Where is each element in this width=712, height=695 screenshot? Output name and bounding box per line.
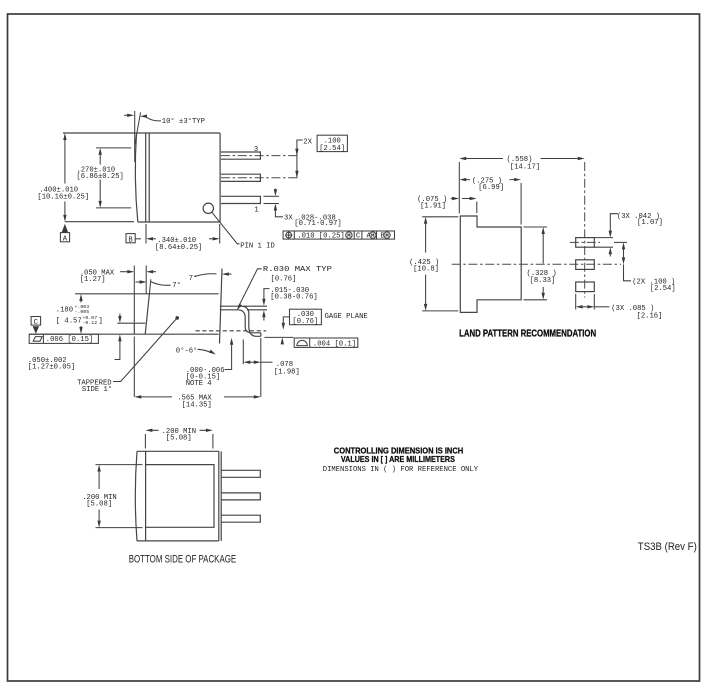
top view tab mold lines — [146, 133, 150, 222]
lead 1 (bottom view) — [221, 470, 260, 477]
svg-text:A: A — [63, 235, 68, 243]
svg-text:[1.27±0.05]: [1.27±0.05] — [28, 364, 75, 372]
svg-text:[1.07]: [1.07] — [637, 219, 663, 227]
svg-text:PIN 1 ID: PIN 1 ID — [240, 242, 275, 250]
svg-text:[10.8]: [10.8] — [413, 266, 439, 274]
top view body outline — [63, 133, 220, 222]
10 degree draft angle callout — [124, 111, 205, 162]
svg-text:NOTE 4: NOTE 4 — [186, 380, 212, 388]
svg-text:[10.16±0.25]: [10.16±0.25] — [37, 193, 89, 201]
svg-text:R.030 MAX TYP: R.030 MAX TYP — [263, 266, 332, 274]
svg-text:]: ] — [99, 318, 103, 326]
svg-text:[2.54]: [2.54] — [650, 285, 676, 293]
svg-text:-0.12: -0.12 — [83, 320, 98, 326]
R.030 MAX TYP lead radius callout — [237, 266, 332, 310]
seating plane reference line right with profile tolerance — [264, 337, 293, 344]
svg-text:.006 [0.15]: .006 [0.15] — [46, 336, 93, 344]
lead 3 centerline — [221, 155, 299, 157]
lead 3 (top view) — [221, 152, 260, 159]
svg-text:TS3B (Rev F): TS3B (Rev F) — [638, 541, 697, 553]
svg-text:[6.99]: [6.99] — [478, 184, 504, 192]
dimension .340 +/- .010 — [135, 224, 220, 252]
dimension .078 foot length — [243, 338, 299, 397]
svg-text:[2.54]: [2.54] — [319, 145, 345, 153]
dimension 2X .100 lead pitch — [295, 135, 347, 178]
svg-text:[1.98]: [1.98] — [274, 369, 300, 377]
feature control frame: true position .010 — [283, 231, 394, 241]
lead pad 2 — [576, 260, 595, 270]
svg-text:10° ±3°TYP: 10° ±3°TYP — [162, 117, 205, 126]
side view left edge extension lines above — [134, 266, 151, 323]
datum A symbol — [60, 224, 69, 244]
dimension .400 +/- .010 (top view height) — [37, 133, 134, 222]
side view left draft edge — [145, 294, 149, 334]
lead 2 centerline — [221, 177, 299, 179]
dimension .565 MAX overall length — [134, 337, 260, 410]
lead pad 3 — [576, 282, 595, 292]
lead 1 (top view) — [221, 196, 260, 203]
lead 2 (bottom view) — [221, 493, 260, 500]
dimension .015-.030 lead thickness — [243, 287, 318, 321]
dimension .200 MIN pad width — [145, 428, 213, 449]
svg-text:SIDE 1°: SIDE 1° — [82, 385, 112, 394]
dimension .050 +/- .002 tab thickness — [28, 314, 122, 372]
svg-text:2X: 2X — [303, 139, 312, 147]
lead pad 1 — [576, 238, 595, 248]
svg-text:.180: .180 — [56, 306, 73, 314]
7 degree draft callout right — [189, 272, 232, 283]
tab land pad outline — [460, 216, 521, 312]
.030 gage plane callout — [282, 309, 368, 330]
dimension (3X .085) pad width — [576, 294, 663, 321]
svg-text:0°-6°: 0°-6° — [176, 346, 198, 355]
svg-text:[14.35]: [14.35] — [182, 402, 212, 410]
svg-text:[ 4.57: [ 4.57 — [56, 318, 82, 326]
svg-text:7°: 7° — [172, 281, 181, 290]
svg-text:[0.76]: [0.76] — [271, 275, 297, 283]
formed lead (side view) — [220, 306, 261, 336]
svg-text:.004 [0.1]: .004 [0.1] — [313, 340, 356, 348]
datum B symbol — [126, 234, 135, 245]
gage plane dashed line — [196, 330, 267, 332]
lead 2 (top view) — [221, 174, 260, 181]
svg-text:[1.27]: [1.27] — [80, 276, 106, 284]
svg-text:C: C — [356, 233, 361, 241]
lead pad 1 centerline — [570, 241, 600, 243]
svg-text:B: B — [128, 236, 133, 244]
tappered side leader note — [77, 316, 179, 394]
svg-text:[1.91]: [1.91] — [420, 203, 446, 211]
dimension (.558) overall — [459, 156, 584, 213]
svg-text:[14.17]: [14.17] — [510, 163, 540, 171]
side view body top edge with left extension — [75, 293, 219, 295]
bottom view tab mold line — [145, 451, 147, 541]
svg-text:[8.33]: [8.33] — [530, 277, 556, 285]
feature control frame: profile .004 — [294, 338, 358, 348]
svg-text:.010 [0.25]: .010 [0.25] — [297, 233, 344, 241]
side view right draft edge extension — [220, 269, 223, 344]
0-6 degree foot angle callout — [176, 346, 216, 355]
svg-text:[5.08]: [5.08] — [86, 501, 112, 509]
lead 3 (bottom view) — [221, 515, 260, 522]
svg-text:[0.38-0.76]: [0.38-0.76] — [270, 293, 317, 301]
7 degree draft callout left — [136, 280, 181, 290]
svg-text:DIMENSIONS IN ( ) FOR REFERENC: DIMENSIONS IN ( ) FOR REFERENCE ONLY — [323, 466, 479, 474]
pin 1 ID circle — [203, 203, 213, 213]
dimension (3X .042) pad height — [594, 213, 663, 257]
bottom view body outline — [135, 451, 221, 541]
dimension (2X .100) pad pitch — [614, 242, 676, 292]
dimension (.425) — [409, 217, 458, 311]
exposed pad outline — [146, 465, 214, 528]
vertical centerline of lead pads — [584, 162, 586, 298]
mounting tab (side view) — [117, 323, 145, 334]
pin 1 ID leader and label — [212, 212, 275, 250]
svg-text:GAGE PLANE: GAGE PLANE — [325, 313, 368, 321]
svg-text:1: 1 — [254, 206, 258, 214]
horizontal centerline — [452, 263, 621, 265]
svg-text:[0.76]: [0.76] — [292, 318, 318, 326]
svg-text:3: 3 — [254, 146, 258, 154]
svg-text:[8.64±0.25]: [8.64±0.25] — [155, 244, 202, 252]
datum C symbol — [31, 317, 40, 334]
svg-text:[0.71-0.97]: [0.71-0.97] — [294, 220, 341, 228]
dimension .000-.006 standoff — [186, 338, 234, 388]
svg-text:BOTTOM SIDE OF PACKAGE: BOTTOM SIDE OF PACKAGE — [129, 553, 237, 565]
feature control frame: flatness .006 — [29, 334, 98, 344]
dimension .050 MAX tab protrusion — [80, 269, 156, 284]
svg-text:LAND PATTERN RECOMMENDATION: LAND PATTERN RECOMMENDATION — [459, 328, 596, 339]
svg-text:C: C — [34, 319, 39, 327]
dimension (.328) — [524, 227, 557, 300]
dimension .270 +/- .010 — [76, 148, 131, 208]
svg-text:[5.08]: [5.08] — [166, 435, 192, 443]
svg-text:[2.16]: [2.16] — [637, 313, 663, 321]
dimension .180 height — [56, 294, 103, 334]
dimension .200 MIN pad height — [82, 465, 142, 528]
dimension (.275) — [459, 177, 521, 224]
svg-text:[6.86±0.25]: [6.86±0.25] — [76, 173, 123, 181]
svg-text:VALUES IN [ ] ARE MILLIMETERS: VALUES IN [ ] ARE MILLIMETERS — [341, 454, 455, 464]
dimension (.075) — [417, 196, 477, 213]
dimension 3X .028-.038 lead width — [264, 189, 342, 229]
svg-text:7°: 7° — [189, 274, 198, 283]
seating plane line — [29, 333, 219, 335]
svg-text:-.005: -.005 — [75, 309, 90, 315]
